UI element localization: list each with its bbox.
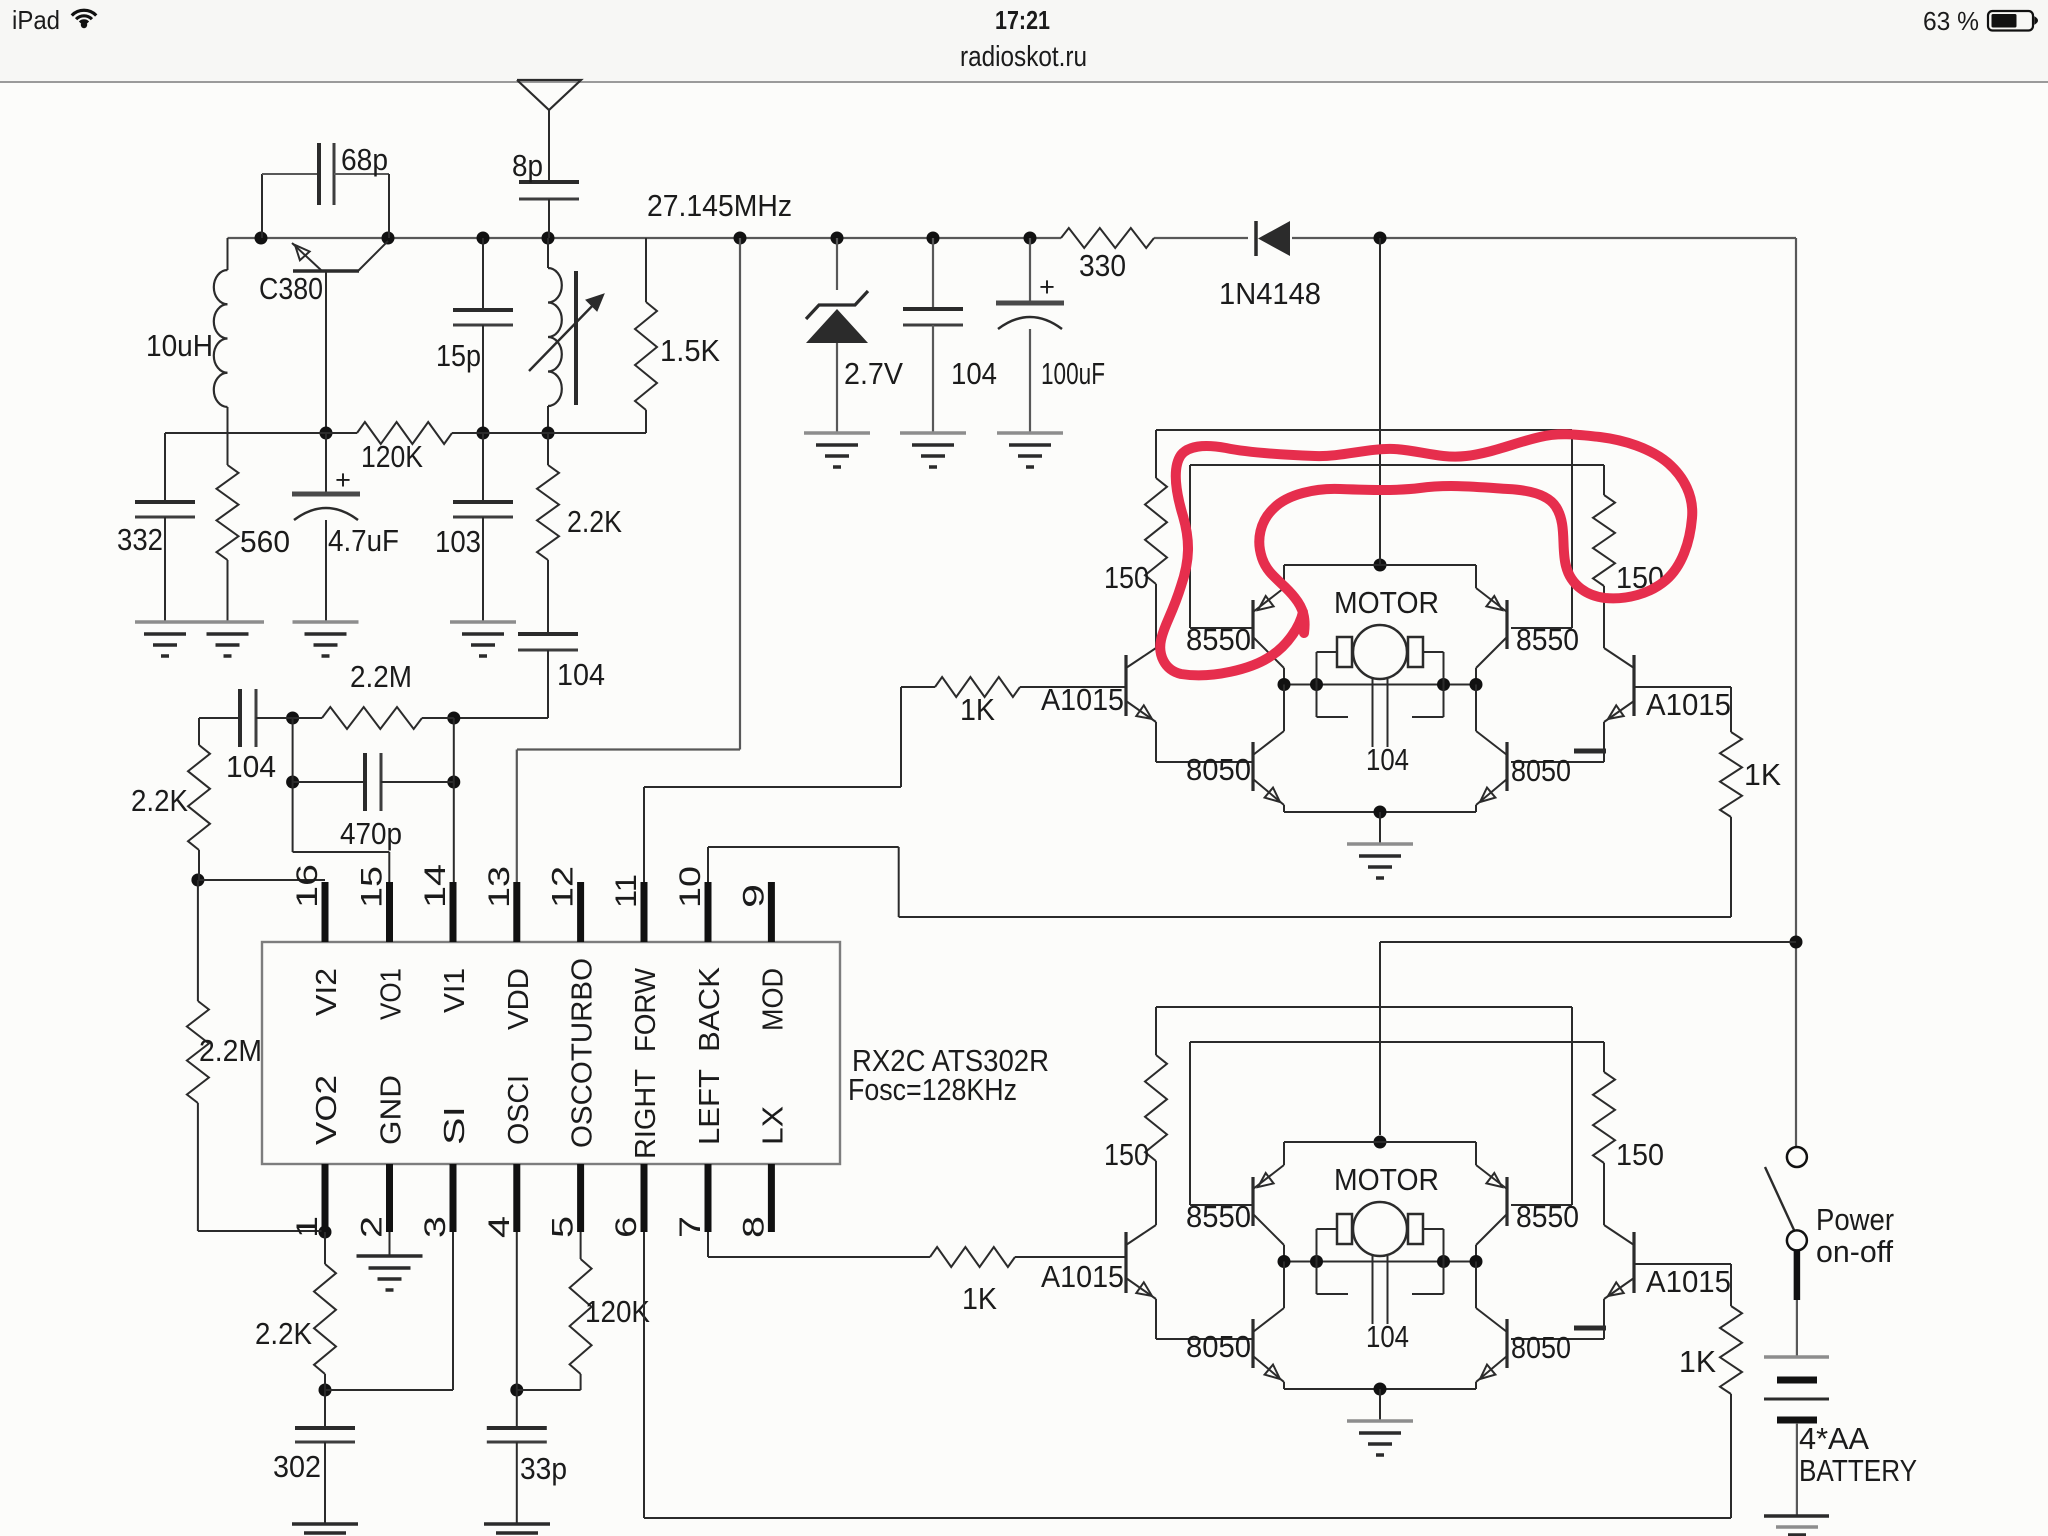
svg-text:+: + — [335, 465, 351, 495]
svg-text:A1015: A1015 — [1041, 682, 1124, 717]
svg-text:63 %: 63 % — [1923, 6, 1979, 36]
svg-text:C380: C380 — [259, 271, 323, 306]
svg-text:iPad: iPad — [12, 5, 60, 35]
svg-text:100uF: 100uF — [1041, 356, 1105, 391]
svg-text:2.2M: 2.2M — [350, 659, 412, 694]
svg-text:5: 5 — [547, 1216, 580, 1238]
svg-text:104: 104 — [226, 749, 276, 784]
svg-text:150: 150 — [1104, 560, 1149, 595]
svg-text:2.2K: 2.2K — [131, 783, 188, 818]
svg-text:2: 2 — [356, 1216, 389, 1238]
svg-text:9: 9 — [737, 884, 770, 908]
svg-text:1: 1 — [291, 1216, 324, 1238]
svg-text:3: 3 — [419, 1216, 452, 1238]
svg-text:OSCI: OSCI — [503, 1075, 535, 1145]
svg-text:BATTERY: BATTERY — [1799, 1453, 1917, 1488]
svg-text:68p: 68p — [341, 142, 388, 177]
svg-text:4.7uF: 4.7uF — [328, 523, 399, 558]
svg-text:8: 8 — [737, 1216, 770, 1238]
svg-text:2.2K: 2.2K — [567, 504, 622, 539]
svg-text:15p: 15p — [436, 338, 481, 373]
svg-text:1N4148: 1N4148 — [1219, 276, 1321, 311]
svg-text:13: 13 — [483, 866, 516, 908]
svg-text:8550: 8550 — [1186, 1199, 1251, 1234]
svg-text:LEFT: LEFT — [694, 1069, 726, 1145]
svg-text:VO1: VO1 — [376, 968, 408, 1020]
svg-text:2.2K: 2.2K — [255, 1316, 312, 1351]
svg-text:RIGHT: RIGHT — [630, 1069, 662, 1159]
svg-text:+: + — [1039, 272, 1055, 302]
svg-text:OSCOTURBO: OSCOTURBO — [567, 958, 599, 1148]
svg-text:16: 16 — [291, 864, 324, 908]
svg-text:2.7V: 2.7V — [844, 356, 903, 391]
svg-text:MOTOR: MOTOR — [1334, 1162, 1439, 1197]
svg-text:12: 12 — [547, 866, 580, 908]
svg-text:8550: 8550 — [1516, 622, 1579, 657]
svg-text:560: 560 — [240, 524, 290, 559]
svg-text:8050: 8050 — [1511, 1330, 1571, 1365]
svg-text:VDD: VDD — [503, 968, 535, 1030]
svg-text:SI: SI — [439, 1106, 471, 1145]
svg-text:103: 103 — [435, 524, 481, 559]
svg-text:104: 104 — [1366, 742, 1409, 777]
svg-text:FORW: FORW — [630, 967, 662, 1052]
svg-text:8050: 8050 — [1186, 752, 1251, 787]
svg-text:8050: 8050 — [1511, 753, 1571, 788]
svg-text:1K: 1K — [962, 1281, 997, 1316]
svg-text:1K: 1K — [1679, 1344, 1716, 1379]
svg-text:14: 14 — [419, 864, 452, 908]
svg-text:4: 4 — [483, 1216, 516, 1238]
svg-text:on-off: on-off — [1816, 1234, 1893, 1269]
svg-text:332: 332 — [117, 522, 163, 557]
svg-text:A1015: A1015 — [1041, 1259, 1124, 1294]
svg-text:2.2M: 2.2M — [199, 1033, 262, 1068]
svg-text:11: 11 — [610, 874, 643, 908]
svg-text:VO2: VO2 — [311, 1075, 343, 1145]
svg-text:302: 302 — [273, 1449, 321, 1484]
svg-text:17:21: 17:21 — [995, 5, 1050, 35]
svg-text:120K: 120K — [361, 439, 423, 474]
svg-text:10uH: 10uH — [146, 328, 213, 363]
svg-text:4*AA: 4*AA — [1799, 1421, 1869, 1456]
svg-text:radioskot.ru: radioskot.ru — [960, 41, 1087, 73]
svg-text:8p: 8p — [512, 148, 543, 183]
svg-text:150: 150 — [1104, 1137, 1149, 1172]
svg-text:A1015: A1015 — [1646, 687, 1731, 722]
svg-text:BACK: BACK — [694, 966, 726, 1052]
svg-text:A1015: A1015 — [1646, 1264, 1731, 1299]
svg-text:330: 330 — [1079, 248, 1126, 283]
svg-text:VI2: VI2 — [311, 968, 343, 1016]
svg-text:MOTOR: MOTOR — [1334, 585, 1439, 620]
svg-text:8550: 8550 — [1516, 1199, 1579, 1234]
svg-text:VI1: VI1 — [439, 968, 471, 1013]
svg-text:120K: 120K — [585, 1294, 650, 1329]
svg-text:104: 104 — [1366, 1319, 1409, 1354]
svg-text:6: 6 — [610, 1216, 643, 1238]
svg-text:MOD: MOD — [757, 968, 789, 1031]
svg-text:33p: 33p — [520, 1451, 567, 1486]
svg-text:1K: 1K — [1744, 757, 1781, 792]
svg-text:7: 7 — [674, 1216, 707, 1238]
svg-text:27.145MHz: 27.145MHz — [647, 188, 792, 223]
svg-text:8550: 8550 — [1186, 622, 1251, 657]
svg-text:LX: LX — [757, 1106, 789, 1145]
svg-text:470p: 470p — [340, 816, 402, 851]
svg-text:GND: GND — [376, 1075, 408, 1145]
svg-text:Fosc=128KHz: Fosc=128KHz — [848, 1072, 1017, 1107]
svg-text:1K: 1K — [960, 692, 995, 727]
svg-text:15: 15 — [356, 866, 389, 908]
svg-text:Power: Power — [1816, 1202, 1894, 1237]
svg-text:104: 104 — [951, 356, 997, 391]
svg-text:10: 10 — [674, 866, 707, 908]
svg-text:104: 104 — [557, 657, 605, 692]
svg-text:1.5K: 1.5K — [660, 333, 720, 368]
svg-text:8050: 8050 — [1186, 1329, 1251, 1364]
svg-text:150: 150 — [1616, 1137, 1664, 1172]
